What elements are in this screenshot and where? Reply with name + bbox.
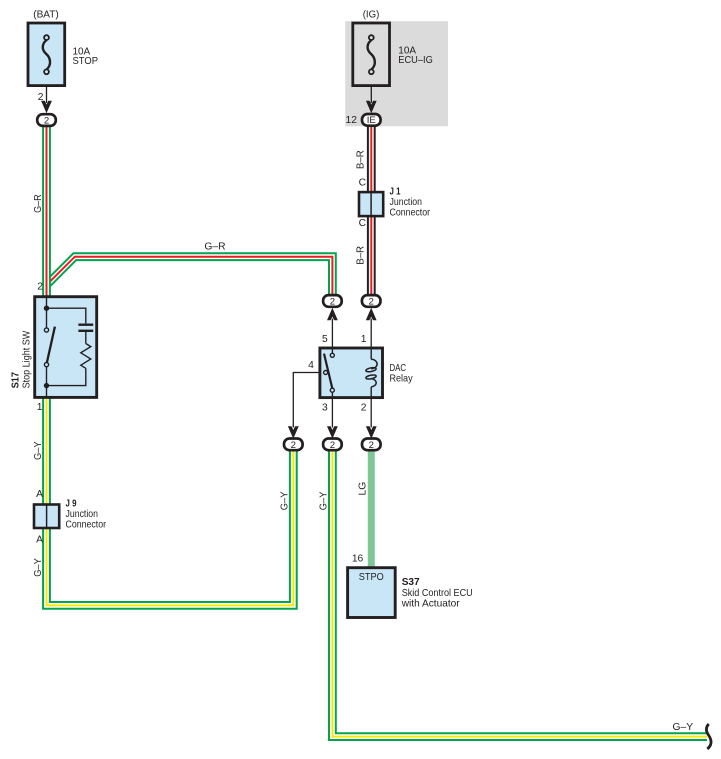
- svg-text:with Actuator: with Actuator: [401, 598, 461, 609]
- svg-text:2: 2: [37, 281, 43, 292]
- svg-text:G–Y: G–Y: [33, 441, 44, 460]
- arrow down into connector below DAC pin4: [288, 426, 299, 439]
- gray IG region: [345, 21, 448, 126]
- S17 stop light switch box: [35, 297, 97, 398]
- svg-text:2: 2: [369, 440, 374, 451]
- DAC pin3 lead inside: [331, 392, 333, 397]
- svg-text:G–R: G–R: [204, 242, 225, 253]
- svg-text:G–Y: G–Y: [280, 491, 291, 510]
- wire G-R main vertical BAT fuse to S17: [42, 126, 51, 297]
- svg-text:2: 2: [330, 296, 335, 307]
- svg-text:ECU–IG: ECU–IG: [398, 55, 433, 66]
- connector oval 2 above DAC pin5: [323, 295, 342, 307]
- svg-text:G–Y: G–Y: [672, 722, 693, 733]
- S17 resistor to bottom dot: [47, 368, 86, 385]
- svg-text:3: 3: [322, 402, 328, 413]
- connector oval 2 below BAT fuse: [37, 114, 56, 126]
- S17 top lead into dot: [46, 297, 48, 308]
- fuse box BAT 10A STOP: [28, 23, 65, 86]
- svg-text:12: 12: [346, 115, 358, 126]
- DAC pin3 wire down to connector: [331, 397, 333, 428]
- svg-text:J 1: J 1: [390, 186, 401, 197]
- connector oval 2 below DAC pin4: [284, 439, 303, 451]
- wire B-R from IE to DAC pin1 connector: [367, 126, 376, 295]
- DAC pin2 wire down to connector: [370, 397, 372, 428]
- connector oval 2 below DAC pin2: [362, 439, 381, 451]
- connector oval IE below IG fuse: [362, 114, 381, 126]
- wire G-Y from S17 pin1 through J9 down and right and up to DAC pin4 connector: [47, 397, 294, 605]
- S37 skid control ECU box: [348, 568, 396, 618]
- svg-text:J 9: J 9: [66, 499, 77, 510]
- S17 switch contact circle bottom: [44, 363, 48, 367]
- svg-text:2: 2: [291, 440, 296, 451]
- svg-text:Skid Control ECU: Skid Control ECU: [402, 588, 473, 599]
- svg-text:Stop Light SW: Stop Light SW: [22, 330, 33, 388]
- DAC contact circle pin3: [330, 388, 334, 392]
- svg-text:DAC: DAC: [390, 363, 407, 374]
- svg-text:(IG): (IG): [363, 10, 380, 21]
- junction connector J9: [34, 505, 59, 529]
- svg-text:B–R: B–R: [355, 150, 366, 169]
- svg-text:16: 16: [352, 553, 364, 564]
- fuse box IG 10A ECU-IG: [353, 23, 390, 86]
- continuation squiggle at right end of G-Y wire: [706, 724, 711, 749]
- S17 switch contact circle top: [44, 328, 48, 332]
- line connector2 to DAC pin1: [370, 319, 372, 351]
- connector oval 2 below DAC pin3: [323, 439, 342, 451]
- S17 node dot top: [44, 306, 49, 311]
- arrow down into connector below DAC pin3: [327, 426, 338, 439]
- DAC contact circle pin5: [330, 353, 334, 357]
- svg-text:Connector: Connector: [390, 207, 431, 218]
- svg-text:A: A: [36, 535, 43, 546]
- svg-text:2: 2: [369, 296, 374, 307]
- svg-text:STPO: STPO: [359, 572, 384, 583]
- arrow up into connector above DAC pin1: [366, 308, 377, 321]
- S17 capacitor plates: [78, 324, 93, 326]
- svg-text:G–Y: G–Y: [33, 558, 44, 577]
- arrow down into IE connector: [366, 101, 377, 114]
- svg-text:2: 2: [44, 115, 49, 126]
- svg-text:Relay: Relay: [390, 374, 414, 385]
- line connector2 to DAC pin5: [331, 319, 333, 351]
- svg-text:A: A: [36, 489, 43, 500]
- wire G-Y from DAC pin3 connector down to bottom right edge: [332, 451, 707, 737]
- DAC coil lead top: [370, 348, 372, 359]
- svg-text:IE: IE: [367, 115, 376, 126]
- svg-text:LG: LG: [358, 482, 369, 496]
- S17 bottom lead: [46, 367, 48, 397]
- DAC pin5 lead: [331, 348, 333, 353]
- svg-text:G–Y: G–Y: [319, 491, 330, 510]
- svg-text:2: 2: [361, 402, 367, 413]
- arrow down into BAT connector: [41, 101, 52, 114]
- svg-text:C: C: [359, 178, 367, 189]
- arrow up into connector above DAC pin5: [327, 308, 338, 321]
- svg-text:STOP: STOP: [73, 56, 99, 67]
- DAC coil: [371, 359, 377, 368]
- wire G-R branch (S17 pin2 to DAC pin5 connector): [48, 257, 332, 295]
- svg-text:4: 4: [308, 360, 314, 371]
- svg-text:Connector: Connector: [66, 520, 107, 531]
- pigtail line below IG fuse: [370, 74, 372, 103]
- svg-text:1: 1: [361, 334, 367, 345]
- DAC switch blade: [324, 354, 333, 390]
- S17 node dot bottom: [44, 383, 49, 388]
- connector oval 2 above DAC pin1: [362, 295, 381, 307]
- svg-text:S37: S37: [402, 577, 420, 588]
- svg-text:B–R: B–R: [355, 246, 366, 265]
- svg-text:G–R: G–R: [33, 194, 44, 213]
- S17 resistor zigzag: [81, 344, 91, 369]
- svg-text:1: 1: [37, 402, 43, 413]
- S17 switch blade: [47, 327, 55, 363]
- svg-text:(BAT): (BAT): [33, 10, 59, 21]
- svg-text:5: 5: [322, 334, 328, 345]
- S17 capacitor to resistor lead: [85, 332, 87, 344]
- arrow down into connector below DAC pin2: [366, 426, 377, 439]
- junction connector J1: [359, 192, 383, 216]
- svg-text:S17: S17: [11, 372, 22, 389]
- S17 switch fixed lead: [46, 308, 48, 328]
- DAC pin4 wire left and down to connector: [293, 373, 323, 428]
- DAC relay box: [320, 348, 383, 398]
- pigtail line below BAT fuse: [46, 74, 48, 103]
- svg-text:C: C: [359, 218, 367, 229]
- DAC pivot circle pin4: [324, 371, 328, 375]
- DAC coil lead bottom: [370, 387, 372, 397]
- svg-text:2: 2: [330, 440, 335, 451]
- S17 top wire to capacitor: [47, 308, 86, 323]
- wire LG from DAC pin2 connector to S37: [368, 451, 375, 569]
- svg-text:2: 2: [38, 92, 44, 103]
